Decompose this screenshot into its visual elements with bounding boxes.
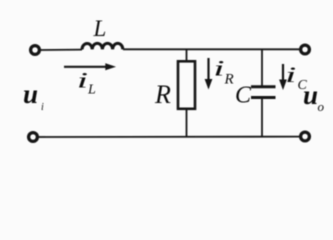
svg-text:L: L [93,16,107,41]
svg-text:C: C [235,83,252,109]
svg-text:o: o [318,99,325,114]
svg-text:L: L [87,83,96,98]
svg-text:i: i [285,63,296,87]
svg-text:R: R [154,80,171,109]
svg-text:R: R [224,72,234,88]
svg-text:i: i [41,102,44,113]
svg-text:u: u [23,79,38,109]
svg-text:i: i [213,57,224,81]
svg-text:i: i [77,69,88,93]
svg-text:u: u [303,80,318,110]
